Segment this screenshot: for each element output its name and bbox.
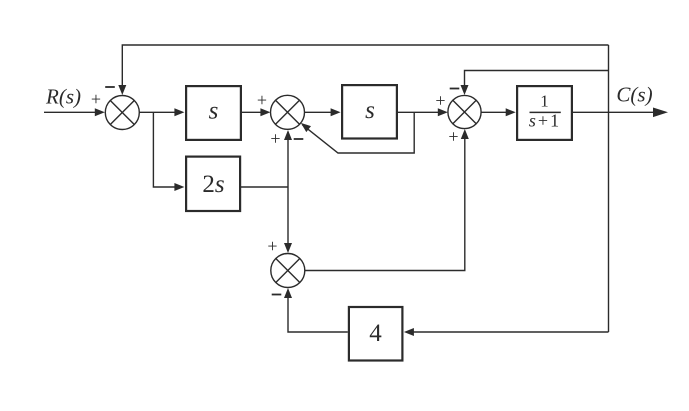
wire G3 output to summer S3 with branch at x=414 [398,108,448,116]
svg-text:+: + [91,89,101,109]
summing junction S1 [105,96,139,130]
block G3 value s [342,85,397,138]
wire second feedback into S3 top [461,71,609,96]
svg-text:R(s): R(s) [45,85,81,109]
svg-text:4: 4 [369,320,382,347]
wire G4 output to C(s) with arrow [572,108,668,118]
summing junction S3 [448,95,481,128]
wire G3 tap feedback down-left diagonal into S2 [301,112,414,153]
wire branch from S1 output down into block G2 [153,112,184,191]
wire main feedback vertical at right [608,45,610,332]
block G1 value s [186,86,241,140]
wire branch up into S2 bottom [284,130,292,187]
svg-text:2s: 2s [202,171,224,198]
sign - at S1 top input [105,86,115,88]
wire S2 output to block G3 [305,108,341,116]
wire S1 output to block G1 [139,108,184,116]
wire bottom feedback from vertical into block G5 [404,328,609,336]
wire S3 output to block G4 [481,108,516,116]
wire G2 output with branch point [241,186,289,188]
wire outer feedback top into S1 [118,45,608,95]
wire branch down into S4 top [284,187,292,253]
sign - at S4 bottom input [272,294,282,296]
svg-text:s: s [365,97,375,124]
wire G1 output to summer S2 [242,108,270,116]
summing junction S2 [271,95,305,129]
summing junction S4 [271,254,305,288]
block G4 value 1/(s+1) [517,86,572,140]
block G5 value 4 [349,307,403,361]
svg-text:+: + [435,90,445,110]
svg-text:+: + [448,126,458,146]
svg-text:s: s [209,98,219,125]
svg-text:+: + [257,90,267,110]
svg-text:+: + [270,128,280,148]
sign - at S2 diagonal input [294,138,304,140]
wire input arrow into summer S1 [44,108,105,116]
sign - at S3 top input [450,88,460,90]
svg-text:+: + [267,236,277,256]
wire G5 output left then up into S4 bottom [284,288,348,332]
svg-text:1: 1 [540,92,549,111]
block G2 value 2s [186,157,240,211]
wire S4 output right then up into S3 bottom [305,129,469,271]
svg-text:C(s): C(s) [616,83,652,107]
svg-text:s+1: s+1 [529,111,561,131]
